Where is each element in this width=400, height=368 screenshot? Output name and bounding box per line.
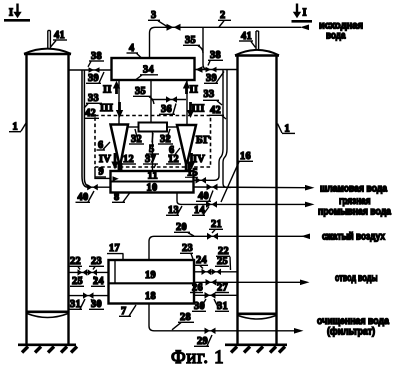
text исходная вода [319, 21, 363, 42]
label 38 (right) [208, 50, 223, 66]
svg-text:35: 35 [135, 86, 146, 97]
label 26 [190, 283, 203, 294]
pipe with valve 15 [194, 179, 208, 181]
sludge water pipe with valve 40 (right) [194, 185, 315, 191]
svg-text:19: 19 [145, 270, 156, 281]
label 21 [209, 219, 223, 233]
filter unit 7 box with 19/18 [109, 260, 195, 304]
ground (left) [18, 345, 77, 353]
label 38 (left) [88, 51, 104, 67]
valve 21 [207, 233, 218, 240]
valve 29 [205, 328, 216, 334]
label 30 (left) [89, 299, 104, 310]
sludge pipe with valve 40 (left) [87, 186, 111, 188]
stream III arrow (right) [187, 102, 205, 118]
label 23 (left) [89, 256, 104, 270]
pipe with valve 36 [151, 99, 186, 101]
valve 3 [167, 24, 181, 31]
label 16 [221, 151, 253, 202]
svg-text:3: 3 [151, 10, 157, 21]
svg-text:отвод воды: отвод воды [335, 273, 378, 284]
label 22 (left) [68, 256, 82, 270]
left column water level [26, 312, 69, 318]
svg-text:28: 28 [180, 312, 191, 323]
label 6 (right) [168, 145, 180, 156]
label 22 (right) [216, 246, 231, 270]
stream IV arrow (left) [99, 153, 119, 170]
label 41 (right) [239, 31, 256, 48]
label 40 (right) [196, 191, 213, 203]
svg-text:(фильтрат): (фильтрат) [327, 326, 375, 338]
svg-text:42: 42 [210, 105, 221, 116]
svg-text:III: III [192, 104, 205, 115]
svg-text:25: 25 [217, 256, 228, 267]
compressed air pipe 20/21 [149, 234, 310, 261]
valve (23/24 left) [88, 269, 98, 275]
svg-text:20: 20 [176, 222, 187, 233]
svg-text:II: II [103, 85, 112, 96]
label 40 (left) [76, 191, 95, 203]
pipe 32 (left) [127, 126, 139, 128]
svg-text:29: 29 [197, 336, 208, 347]
right pipe from filter top with valves [194, 271, 238, 273]
label 12 (right) [166, 154, 181, 165]
svg-text:11: 11 [148, 170, 159, 181]
label 31 (right) [214, 299, 229, 312]
column 1 (left) body [24, 49, 71, 345]
label 17 [107, 243, 124, 260]
pipe 35 (upper vertical) [203, 27, 207, 69]
svg-text:35: 35 [185, 35, 196, 46]
stream IV arrow (right) [188, 153, 206, 170]
partition 17 inside box 19 [114, 260, 116, 283]
svg-text:40: 40 [78, 192, 89, 203]
label 41 (left) [51, 30, 68, 47]
svg-text:18: 18 [145, 291, 156, 302]
left lower pipe with valve 30/31 [69, 295, 109, 297]
svg-text:17: 17 [109, 243, 120, 254]
svg-text:7: 7 [121, 306, 127, 317]
label 4 [127, 43, 143, 59]
valve 40 (right) [207, 184, 218, 191]
svg-text:33: 33 [88, 93, 99, 104]
svg-text:31: 31 [217, 301, 228, 312]
svg-text:БГ: БГ [196, 135, 210, 146]
valve 40 (left) [87, 184, 98, 190]
svg-text:30: 30 [91, 299, 102, 310]
svg-text:21: 21 [211, 219, 222, 230]
stream II arrow (left) [103, 81, 120, 96]
left pipe to filter top with valves 22-25 [69, 271, 109, 273]
right column water level [237, 314, 277, 319]
funnel 6 (right) [177, 125, 196, 172]
svg-text:22: 22 [70, 256, 81, 267]
label 33 (right) [203, 89, 222, 105]
vent pipe 41 (left) [48, 31, 51, 50]
valve (30/31 right) [205, 292, 216, 299]
label 7 [119, 305, 136, 317]
flow arrow on pipe [196, 66, 203, 72]
valve (26/27) [206, 279, 217, 286]
valve 36 [166, 96, 177, 103]
stream symbol I top-left [4, 4, 30, 21]
svg-text:23: 23 [182, 243, 193, 254]
label 36 [159, 104, 176, 116]
label 32 (right) [158, 129, 173, 145]
svg-text:23: 23 [91, 256, 102, 267]
label 33 (left) [84, 93, 102, 108]
svg-text:24: 24 [196, 255, 207, 266]
label 24 (left) [91, 276, 105, 287]
svg-text:38: 38 [210, 50, 221, 61]
label 23 (right) [180, 243, 193, 259]
valve (22/25 left) [78, 269, 88, 275]
left wrap pipes 33/42 going down [82, 70, 88, 187]
svg-text:1: 1 [13, 122, 19, 133]
label 2 [218, 10, 231, 27]
label 24 (right) [194, 255, 208, 269]
svg-text:31: 31 [70, 299, 81, 310]
label 1 (left) [9, 122, 27, 133]
valve 38 (right) [206, 67, 217, 73]
label 14 [192, 205, 209, 216]
label 25 (left) [70, 276, 84, 287]
pipe from box 34 to right column with valve 38 [194, 69, 238, 71]
svg-text:II: II [190, 85, 199, 96]
svg-text:10: 10 [147, 182, 158, 193]
valve (25 right) [212, 269, 222, 275]
label 15 [185, 168, 198, 179]
pipe 2 with inlet arrow [150, 25, 310, 59]
apparatus 4 box with 34 [112, 58, 195, 80]
label 32 (left) [129, 129, 144, 145]
label 39 (right) [204, 72, 224, 85]
filtrate pipe 28 with valve 29 [149, 304, 304, 334]
svg-text:36: 36 [161, 104, 172, 115]
collector 8 box with 11/10 [111, 171, 194, 193]
svg-text:34: 34 [143, 65, 154, 76]
label 35 (middle) [133, 86, 154, 104]
svg-text:Фиг. 1: Фиг. 1 [171, 348, 224, 368]
svg-text:грязная: грязная [339, 196, 371, 207]
label 31 (left) [68, 299, 85, 310]
label 6 (left) [97, 140, 111, 151]
svg-text:I: I [303, 8, 307, 19]
label 5 [146, 133, 159, 155]
svg-text:39: 39 [206, 73, 217, 84]
label 37 [143, 154, 158, 168]
label 30 (right) [192, 299, 206, 312]
svg-text:очищенная вода: очищенная вода [317, 316, 389, 327]
pipe 37 [152, 132, 154, 173]
pipe 35 (middle, box34 to box5) [150, 80, 152, 123]
svg-text:III: III [100, 103, 113, 114]
ground (right) [225, 345, 287, 353]
svg-text:вода: вода [326, 31, 346, 42]
valve (30/31 left) [83, 292, 94, 298]
label 28 [172, 312, 194, 330]
distributor box 5 [139, 123, 168, 132]
label 20 [174, 222, 194, 236]
svg-text:40: 40 [198, 191, 209, 202]
label 27 [215, 283, 229, 294]
label 13 [166, 205, 182, 216]
stream II arrow (right) [183, 81, 199, 96]
pipe 13 with valve 14, dirty wash water out [177, 192, 315, 208]
valve 38 (left) [89, 67, 100, 73]
water drain pipe with valve 26/27 [194, 280, 310, 286]
label 39 (left) [86, 72, 104, 84]
text очищенная вода (фильтрат) [317, 316, 389, 338]
label 3 [148, 10, 167, 27]
label 25 (right) [215, 256, 229, 267]
hydrocyclone block dashed box БГ [95, 116, 211, 168]
right wrap pipes going down [205, 70, 223, 181]
pipe 32 (right) [167, 126, 178, 128]
label 1 (right) [278, 124, 296, 135]
label 42 (left) [84, 108, 99, 119]
valve 15 [196, 177, 207, 184]
valve 14 [206, 201, 217, 208]
stream III arrow (left) [100, 102, 123, 118]
label 29 [194, 335, 212, 347]
svg-text:39: 39 [88, 73, 99, 84]
svg-text:сжатый воздух: сжатый воздух [322, 232, 385, 243]
legs from box 34 to funnels [118, 80, 120, 125]
svg-text:промывная вода: промывная вода [318, 207, 391, 218]
svg-text:9: 9 [99, 167, 105, 178]
valve (24 right) [202, 269, 212, 275]
right lower pipe with valve 30/31 [194, 294, 238, 296]
label 9 [95, 167, 106, 178]
vent pipe 41 (right) [256, 31, 259, 49]
svg-text:IV: IV [99, 154, 111, 165]
column 1 (right) body [235, 50, 279, 345]
funnel 6 (left) [111, 125, 129, 173]
pipe 9 into box 11 [95, 167, 119, 181]
pipe from box 34 to left column with valve 38 [69, 69, 111, 71]
svg-text:8: 8 [114, 192, 120, 203]
svg-text:16: 16 [240, 151, 251, 162]
svg-text:IV: IV [193, 154, 205, 165]
label 8 [112, 192, 130, 203]
stream symbol I top-right [292, 4, 313, 22]
label 12 (left) [121, 154, 136, 165]
svg-text:2: 2 [220, 10, 226, 21]
text грязная промывная вода [318, 196, 391, 218]
svg-text:33: 33 [204, 89, 215, 100]
label 42 (right) [209, 105, 226, 119]
svg-text:I: I [9, 8, 13, 19]
svg-text:шламовая вода: шламовая вода [320, 184, 387, 195]
label 35 (upper) [183, 35, 203, 53]
